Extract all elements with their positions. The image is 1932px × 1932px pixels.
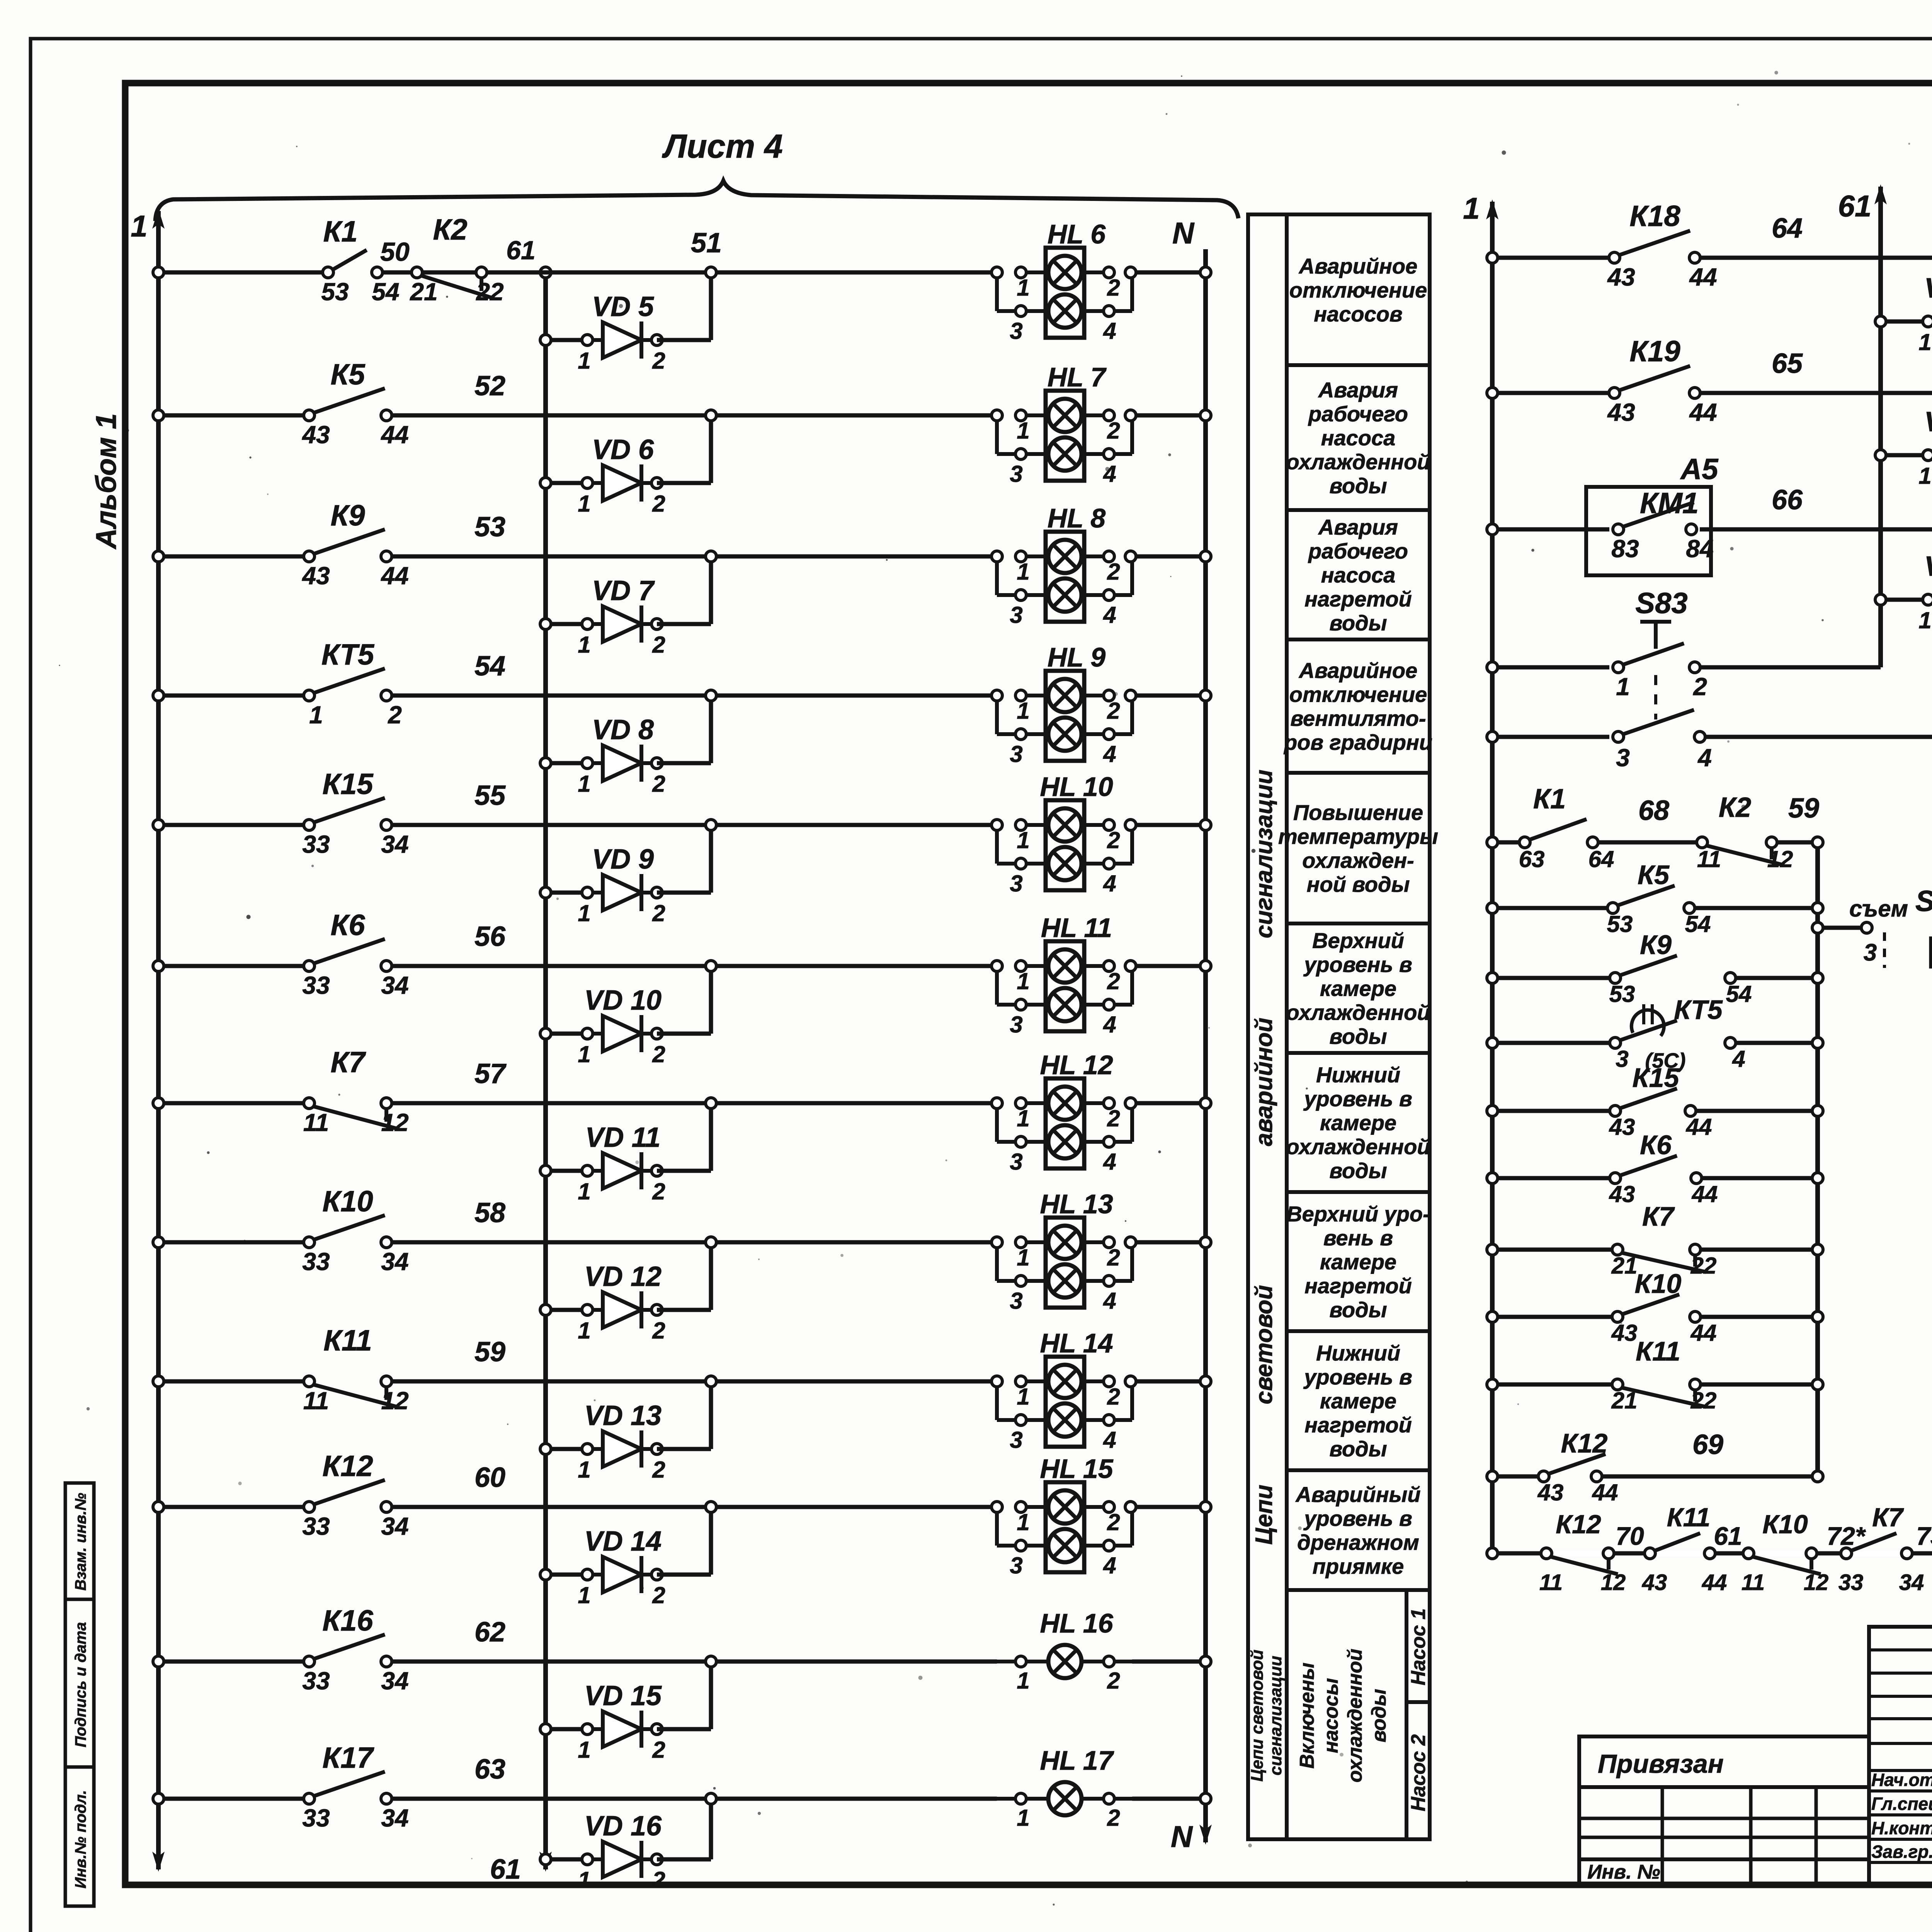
svg-text:уровень в: уровень в <box>1303 1087 1412 1111</box>
left margin stamp table <box>65 1483 94 1906</box>
brace from sheet 4 <box>155 181 1238 221</box>
svg-text:3: 3 <box>1010 1149 1022 1175</box>
wire row node 50/61/51 (left row 1) <box>158 270 323 275</box>
wire lower row КТ5 <box>1492 1041 1610 1045</box>
svg-text:К17: К17 <box>322 1742 374 1774</box>
contact К1 (63-64) <box>1529 819 1587 840</box>
svg-text:вень в: вень в <box>1323 1226 1393 1250</box>
svg-text:43: 43 <box>301 562 330 590</box>
wire row node 52 (left row 2) <box>158 413 304 418</box>
svg-text:64: 64 <box>1772 213 1803 244</box>
svg-text:Аварийное: Аварийное <box>1298 658 1417 683</box>
svg-text:44: 44 <box>380 421 408 449</box>
svg-text:51: 51 <box>691 228 722 259</box>
svg-text:54: 54 <box>1726 981 1752 1007</box>
svg-text:44: 44 <box>1690 1320 1717 1346</box>
svg-text:Альбом 1: Альбом 1 <box>90 413 122 550</box>
svg-text:2: 2 <box>388 701 402 729</box>
signal description table (middle column) <box>1248 214 1430 1839</box>
svg-text:камере: камере <box>1320 1389 1396 1413</box>
svg-text:11: 11 <box>1697 846 1721 872</box>
svg-text:VD 7: VD 7 <box>592 575 655 606</box>
svg-text:К7: К7 <box>1872 1503 1904 1532</box>
svg-text:12: 12 <box>381 1109 408 1136</box>
svg-text:VD 15: VD 15 <box>584 1680 662 1711</box>
svg-text:К9: К9 <box>331 499 365 532</box>
svg-text:1: 1 <box>1017 827 1029 853</box>
wire lower row К7 <box>1492 1248 1612 1252</box>
diode VD13 <box>546 1447 587 1451</box>
svg-text:HL 12: HL 12 <box>1040 1050 1113 1080</box>
svg-text:К10: К10 <box>1762 1510 1808 1539</box>
svg-text:ров градирни: ров градирни <box>1283 730 1432 755</box>
svg-text:4: 4 <box>1103 741 1116 767</box>
svg-text:Нижний: Нижний <box>1316 1063 1400 1087</box>
svg-text:1: 1 <box>578 1041 590 1067</box>
svg-text:44: 44 <box>1689 263 1717 291</box>
svg-text:Насос 1: Насос 1 <box>1407 1608 1430 1685</box>
svg-text:1: 1 <box>1017 1384 1029 1410</box>
wire row node 53 (left row 3) <box>158 554 304 559</box>
svg-text:1: 1 <box>131 209 147 243</box>
bus N (left ladder) <box>1203 249 1208 1842</box>
svg-text:Лист 4: Лист 4 <box>662 128 783 165</box>
svg-text:К2: К2 <box>433 213 468 246</box>
contact К7 (21-22) <box>1621 1253 1706 1272</box>
svg-text:53: 53 <box>1609 981 1635 1007</box>
svg-text:Привязан: Привязан <box>1598 1749 1724 1779</box>
svg-text:VD 6: VD 6 <box>592 434 654 465</box>
wire lower row К15 <box>1492 1109 1610 1113</box>
svg-text:60: 60 <box>474 1462 505 1493</box>
svg-text:HL 14: HL 14 <box>1040 1328 1113 1358</box>
svg-text:1: 1 <box>1017 1245 1029 1270</box>
svg-text:3: 3 <box>1010 1288 1022 1314</box>
svg-text:Инв. №: Инв. № <box>1587 1861 1660 1883</box>
svg-text:воды: воды <box>1368 1689 1390 1742</box>
svg-text:2: 2 <box>1107 1509 1120 1535</box>
svg-text:насосы: насосы <box>1320 1678 1342 1753</box>
svg-text:К11: К11 <box>1636 1336 1680 1366</box>
wire row node 58 (left row 8) <box>158 1240 304 1245</box>
svg-text:1: 1 <box>1918 607 1931 633</box>
contact К11 (pins 11-12) <box>313 1384 397 1407</box>
svg-text:охлажденной: охлажденной <box>1286 1000 1430 1025</box>
svg-text:HL 16: HL 16 <box>1040 1608 1113 1638</box>
diode VD9 <box>546 891 587 895</box>
svg-text:К10: К10 <box>1635 1269 1682 1299</box>
svg-text:HL 6: HL 6 <box>1048 219 1106 249</box>
svg-text:2: 2 <box>652 491 665 517</box>
contact КТ5 (pins 1-2) <box>313 668 385 693</box>
svg-text:43: 43 <box>1609 1114 1635 1140</box>
svg-text:2: 2 <box>652 900 665 926</box>
svg-text:53: 53 <box>321 278 349 306</box>
contact К1 (pins 53-54) <box>332 250 367 270</box>
svg-text:воды: воды <box>1329 1298 1387 1322</box>
svg-text:34: 34 <box>381 830 408 858</box>
diode VD15 <box>546 1727 587 1731</box>
svg-text:К5: К5 <box>1638 860 1670 890</box>
svg-text:К5: К5 <box>331 358 366 391</box>
svg-text:34: 34 <box>381 1667 408 1695</box>
svg-text:К6: К6 <box>1640 1130 1672 1160</box>
svg-text:2: 2 <box>1107 1668 1120 1694</box>
svg-text:1: 1 <box>1017 418 1029 444</box>
lamp HL12 <box>1046 1078 1084 1168</box>
svg-text:3: 3 <box>1010 871 1022 896</box>
svg-text:К7: К7 <box>1642 1201 1675 1231</box>
svg-text:2: 2 <box>1107 698 1120 724</box>
svg-text:К9: К9 <box>1640 930 1672 960</box>
svg-text:воды: воды <box>1329 1158 1387 1183</box>
svg-text:4: 4 <box>1103 1012 1116 1037</box>
svg-text:1: 1 <box>1017 968 1029 994</box>
svg-text:КТ5: КТ5 <box>1674 995 1723 1025</box>
svg-text:2: 2 <box>1107 275 1120 301</box>
svg-text:22: 22 <box>1690 1388 1717 1413</box>
svg-text:57: 57 <box>474 1058 507 1089</box>
contact КМ1 (83-84) <box>1622 502 1694 527</box>
svg-text:55: 55 <box>474 780 506 811</box>
svg-text:КТ5: КТ5 <box>321 638 375 671</box>
svg-text:рабочего: рабочего <box>1308 539 1408 563</box>
svg-text:дренажном: дренажном <box>1297 1530 1419 1554</box>
svg-text:43: 43 <box>1609 1181 1635 1207</box>
lamp HL8 <box>1046 532 1084 622</box>
wire row S83 test (1-2) <box>1492 665 1609 670</box>
svg-text:К1: К1 <box>323 215 358 248</box>
svg-text:2: 2 <box>1107 1384 1120 1410</box>
svg-text:К15: К15 <box>322 768 374 801</box>
svg-text:34: 34 <box>381 1512 408 1540</box>
contact К12 (pins 33-34) <box>313 1480 385 1505</box>
wire row node 62 (left row 11) <box>158 1660 304 1664</box>
svg-text:съем: съем <box>1849 896 1908 922</box>
svg-text:отключение: отключение <box>1289 278 1427 302</box>
svg-text:65: 65 <box>1772 348 1803 379</box>
svg-text:нагретой: нагретой <box>1304 1413 1412 1437</box>
svg-text:воды: воды <box>1329 1024 1387 1049</box>
svg-text:53: 53 <box>474 512 505 543</box>
svg-text:HL 8: HL 8 <box>1048 503 1105 533</box>
svg-text:Гл.спец.: Гл.спец. <box>1871 1794 1932 1814</box>
svg-text:1: 1 <box>578 491 590 517</box>
contact К9 (pins 43-44) <box>313 529 385 554</box>
contact К5 (pins 43-44) <box>313 388 385 413</box>
svg-text:HL 11: HL 11 <box>1041 913 1112 943</box>
svg-text:VD 10: VD 10 <box>584 985 662 1016</box>
bus 1 (left ladder) <box>156 211 161 1869</box>
svg-text:1: 1 <box>1017 275 1029 301</box>
svg-text:4: 4 <box>1103 1149 1116 1175</box>
diode VD8 <box>546 761 587 765</box>
svg-text:VD 19: VD 19 <box>1924 551 1932 582</box>
svg-text:VD 11: VD 11 <box>585 1122 661 1153</box>
svg-text:61: 61 <box>490 1854 521 1885</box>
svg-text:3: 3 <box>1010 461 1022 487</box>
svg-text:VD 18: VD 18 <box>1924 406 1932 437</box>
mechanical link S83 <box>1654 675 1657 719</box>
wire lower row К12 <box>1492 1475 1539 1479</box>
svg-text:VD 12: VD 12 <box>584 1261 662 1292</box>
svg-text:44: 44 <box>1592 1480 1618 1505</box>
svg-text:К11: К11 <box>323 1324 372 1357</box>
svg-text:SA 3: SA 3 <box>1915 885 1932 918</box>
svg-text:2: 2 <box>1107 968 1120 994</box>
contact К6 (43-44) <box>1619 1156 1677 1176</box>
svg-text:Насос 2: Насос 2 <box>1407 1734 1430 1811</box>
svg-text:34: 34 <box>381 1804 408 1832</box>
wire row node 59 (left row 9) <box>158 1379 304 1384</box>
svg-text:1: 1 <box>578 1737 590 1763</box>
svg-text:66: 66 <box>1772 485 1803 515</box>
svg-text:4: 4 <box>1103 1553 1116 1578</box>
svg-text:ной воды: ной воды <box>1307 872 1410 896</box>
svg-text:21: 21 <box>1611 1253 1638 1279</box>
svg-text:А5: А5 <box>1680 453 1719 486</box>
svg-text:К15: К15 <box>1633 1063 1680 1093</box>
contact К7 (pins 11-12) <box>313 1106 397 1129</box>
svg-text:2: 2 <box>652 1457 665 1483</box>
svg-text:68: 68 <box>1638 795 1669 826</box>
title block: привязан table <box>1579 1736 1869 1885</box>
svg-text:58: 58 <box>474 1197 505 1228</box>
svg-text:4: 4 <box>1697 744 1712 772</box>
svg-text:Верхний уро-: Верхний уро- <box>1286 1202 1430 1226</box>
svg-text:34: 34 <box>381 971 408 999</box>
svg-text:11: 11 <box>303 1387 329 1415</box>
svg-text:33: 33 <box>302 971 330 999</box>
svg-text:воды: воды <box>1329 611 1387 635</box>
svg-text:1: 1 <box>1017 1105 1029 1131</box>
svg-text:насоса: насоса <box>1321 426 1396 450</box>
svg-text:уровень в: уровень в <box>1303 952 1412 977</box>
svg-text:2: 2 <box>1107 827 1120 853</box>
svg-text:приямке: приямке <box>1313 1554 1404 1578</box>
wire row node 55 (left row 5) <box>158 823 304 827</box>
svg-text:нагретой: нагретой <box>1304 587 1412 611</box>
svg-text:Зав.гр.: Зав.гр. <box>1871 1842 1932 1862</box>
svg-text:2: 2 <box>652 1737 665 1763</box>
svg-text:2: 2 <box>652 632 665 658</box>
svg-text:К10: К10 <box>322 1185 373 1218</box>
svg-text:21: 21 <box>410 278 437 306</box>
svg-text:4: 4 <box>1103 461 1116 487</box>
svg-text:1: 1 <box>578 1582 590 1608</box>
svg-text:HL 9: HL 9 <box>1048 642 1105 672</box>
bottom section of middle column <box>1405 1590 1408 1839</box>
svg-text:Нижний: Нижний <box>1316 1341 1400 1365</box>
svg-text:4: 4 <box>1732 1046 1745 1072</box>
svg-text:3: 3 <box>1864 939 1877 966</box>
svg-text:33: 33 <box>302 1667 330 1695</box>
svg-text:33: 33 <box>302 1512 330 1540</box>
svg-text:К11: К11 <box>1667 1503 1710 1532</box>
svg-text:камере: камере <box>1320 1111 1396 1135</box>
svg-text:1: 1 <box>1017 1668 1029 1694</box>
svg-text:1: 1 <box>1017 1805 1029 1831</box>
svg-text:3: 3 <box>1010 318 1022 344</box>
svg-text:44: 44 <box>1686 1114 1712 1140</box>
contact КТ5 (3-4) <box>1619 1020 1677 1041</box>
svg-text:Авария: Авария <box>1318 515 1398 539</box>
wire row 64 <box>1492 256 1609 260</box>
svg-text:К12: К12 <box>322 1450 373 1483</box>
svg-text:Верхний: Верхний <box>1312 929 1404 953</box>
svg-text:1: 1 <box>578 1179 590 1204</box>
svg-text:камере: камере <box>1320 976 1396 1001</box>
svg-text:56: 56 <box>474 921 506 952</box>
lamp HL11 <box>1046 941 1084 1031</box>
diode VD11 <box>546 1169 587 1173</box>
svg-text:2: 2 <box>652 1318 665 1344</box>
diode VD 19 <box>1881 598 1928 602</box>
contact К12 (43-44) <box>1548 1454 1605 1474</box>
contact К2 (pins 21-22, NC) <box>421 276 492 298</box>
svg-text:63: 63 <box>1519 846 1545 872</box>
lamp HL9 <box>1046 671 1084 761</box>
svg-text:сигнализации: сигнализации <box>1266 1656 1285 1776</box>
contact К10 (43-44) <box>1621 1294 1679 1315</box>
svg-text:VD 16: VD 16 <box>584 1811 662 1842</box>
lamp HL10 <box>1046 800 1084 890</box>
svg-text:нагретой: нагретой <box>1304 1274 1412 1298</box>
svg-text:HL 10: HL 10 <box>1040 772 1113 802</box>
wire row S83 (3-4) <box>1492 735 1609 739</box>
svg-text:1: 1 <box>1616 673 1630 701</box>
svg-text:3: 3 <box>1616 744 1630 772</box>
svg-text:Аварийное: Аварийное <box>1298 254 1417 278</box>
svg-text:HL 7: HL 7 <box>1048 362 1107 392</box>
svg-text:33: 33 <box>302 1804 330 1832</box>
svg-text:VD 8: VD 8 <box>592 714 654 745</box>
svg-text:2: 2 <box>652 1867 665 1893</box>
svg-text:50: 50 <box>380 237 410 267</box>
svg-text:Подпись и дата: Подпись и дата <box>72 1622 89 1747</box>
series contact К10 (11-12) <box>1754 1551 1806 1556</box>
svg-text:21: 21 <box>1611 1388 1638 1413</box>
wire row node 63 (left row 12) <box>158 1797 304 1801</box>
svg-text:44: 44 <box>1702 1570 1727 1595</box>
svg-text:Цепи: Цепи <box>1251 1485 1277 1544</box>
svg-text:43: 43 <box>1537 1480 1564 1505</box>
wire row node 57 (left row 7) <box>158 1101 304 1105</box>
time-relay symbol КТ5 <box>1631 1010 1664 1036</box>
svg-text:HL 13: HL 13 <box>1040 1189 1113 1219</box>
svg-text:11: 11 <box>1539 1570 1563 1595</box>
svg-text:1: 1 <box>578 900 590 926</box>
wire row 68/59 (К1,К2) <box>1492 840 1520 845</box>
bus 61 (right ladder) <box>1878 187 1883 667</box>
svg-text:22: 22 <box>476 278 503 306</box>
svg-text:43: 43 <box>1607 398 1635 426</box>
svg-text:VD 14: VD 14 <box>584 1526 662 1557</box>
svg-text:HL 15: HL 15 <box>1040 1454 1113 1484</box>
svg-text:34: 34 <box>1899 1570 1924 1595</box>
svg-text:73: 73 <box>1916 1522 1932 1550</box>
contact К10 (pins 33-34) <box>313 1215 385 1240</box>
diode VD 18 <box>1881 453 1928 457</box>
svg-text:1: 1 <box>578 771 590 797</box>
svg-text:1: 1 <box>1918 463 1931 489</box>
wire lower row К10 <box>1492 1315 1612 1319</box>
svg-text:54: 54 <box>372 278 399 306</box>
lamp HL16 <box>997 1660 1048 1663</box>
svg-text:2: 2 <box>1693 673 1707 701</box>
svg-text:КМ1: КМ1 <box>1640 487 1699 520</box>
pushbutton S83 (1-2) <box>1622 643 1684 665</box>
diode supply bus 61 (left) <box>543 272 548 1869</box>
series contact К7 (33-34) <box>1852 1551 1901 1556</box>
wire row node 60 (left row 10) <box>158 1505 304 1509</box>
svg-text:К12: К12 <box>1556 1510 1601 1539</box>
svg-text:HL 17: HL 17 <box>1040 1745 1114 1776</box>
svg-text:3: 3 <box>1010 602 1022 628</box>
svg-text:Авария: Авария <box>1318 378 1398 402</box>
svg-text:К7: К7 <box>331 1046 367 1079</box>
svg-text:1: 1 <box>1017 698 1029 724</box>
diode VD10 <box>546 1032 587 1036</box>
svg-text:вентилято-: вентилято- <box>1290 706 1426 731</box>
svg-text:83: 83 <box>1611 535 1639 563</box>
svg-text:S83: S83 <box>1635 587 1687 620</box>
svg-text:43: 43 <box>1611 1320 1638 1346</box>
contact К15 (pins 33-34) <box>313 798 385 823</box>
svg-text:4: 4 <box>1103 1427 1116 1453</box>
svg-text:1: 1 <box>1918 329 1931 355</box>
svg-text:2: 2 <box>652 348 665 374</box>
svg-text:2: 2 <box>652 1041 665 1067</box>
svg-text:отключение: отключение <box>1289 682 1427 707</box>
wire lower row К9 <box>1492 976 1610 980</box>
svg-text:1: 1 <box>309 701 323 729</box>
svg-text:световой: световой <box>1251 1285 1277 1405</box>
svg-text:Повышение: Повышение <box>1293 800 1423 825</box>
audible-alarm series chain wire <box>1492 1551 1932 1556</box>
lamp HL14 <box>1046 1357 1084 1447</box>
svg-text:VD 17: VD 17 <box>1924 273 1932 304</box>
contact К9 (53-54) <box>1619 956 1677 976</box>
svg-text:2: 2 <box>652 1582 665 1608</box>
switch SA3 (сигн) upper <box>1883 932 1886 968</box>
svg-text:1: 1 <box>1017 1509 1029 1535</box>
svg-text:43: 43 <box>1642 1570 1667 1595</box>
svg-text:1: 1 <box>1463 191 1480 225</box>
svg-text:охлажден-: охлажден- <box>1302 848 1414 872</box>
collector bus (lower network) <box>1815 842 1820 1476</box>
svg-text:охлажденной: охлажденной <box>1344 1649 1366 1782</box>
svg-text:59: 59 <box>1788 793 1819 824</box>
contact К11 (21-22) <box>1621 1388 1706 1407</box>
contact К15 (43-44) <box>1619 1088 1677 1109</box>
svg-text:Инв.№ подл.: Инв.№ подл. <box>72 1790 89 1889</box>
svg-text:4: 4 <box>1103 1288 1116 1314</box>
svg-text:43: 43 <box>301 421 330 449</box>
svg-text:Взам. инв.№: Взам. инв.№ <box>72 1493 89 1590</box>
wire row node 54 (left row 4) <box>158 694 304 698</box>
svg-text:61: 61 <box>1838 189 1872 223</box>
svg-text:рабочего: рабочего <box>1308 402 1408 426</box>
svg-text:1: 1 <box>578 1867 590 1893</box>
svg-text:Нач.отд.: Нач.отд. <box>1871 1770 1932 1790</box>
svg-text:1: 1 <box>1017 559 1029 585</box>
lamp HL7 <box>1046 391 1084 481</box>
contact К17 (pins 33-34) <box>313 1772 385 1796</box>
svg-text:2: 2 <box>1107 1105 1120 1131</box>
contact К16 (pins 33-34) <box>313 1634 385 1659</box>
lamp HL6 <box>1046 248 1084 338</box>
